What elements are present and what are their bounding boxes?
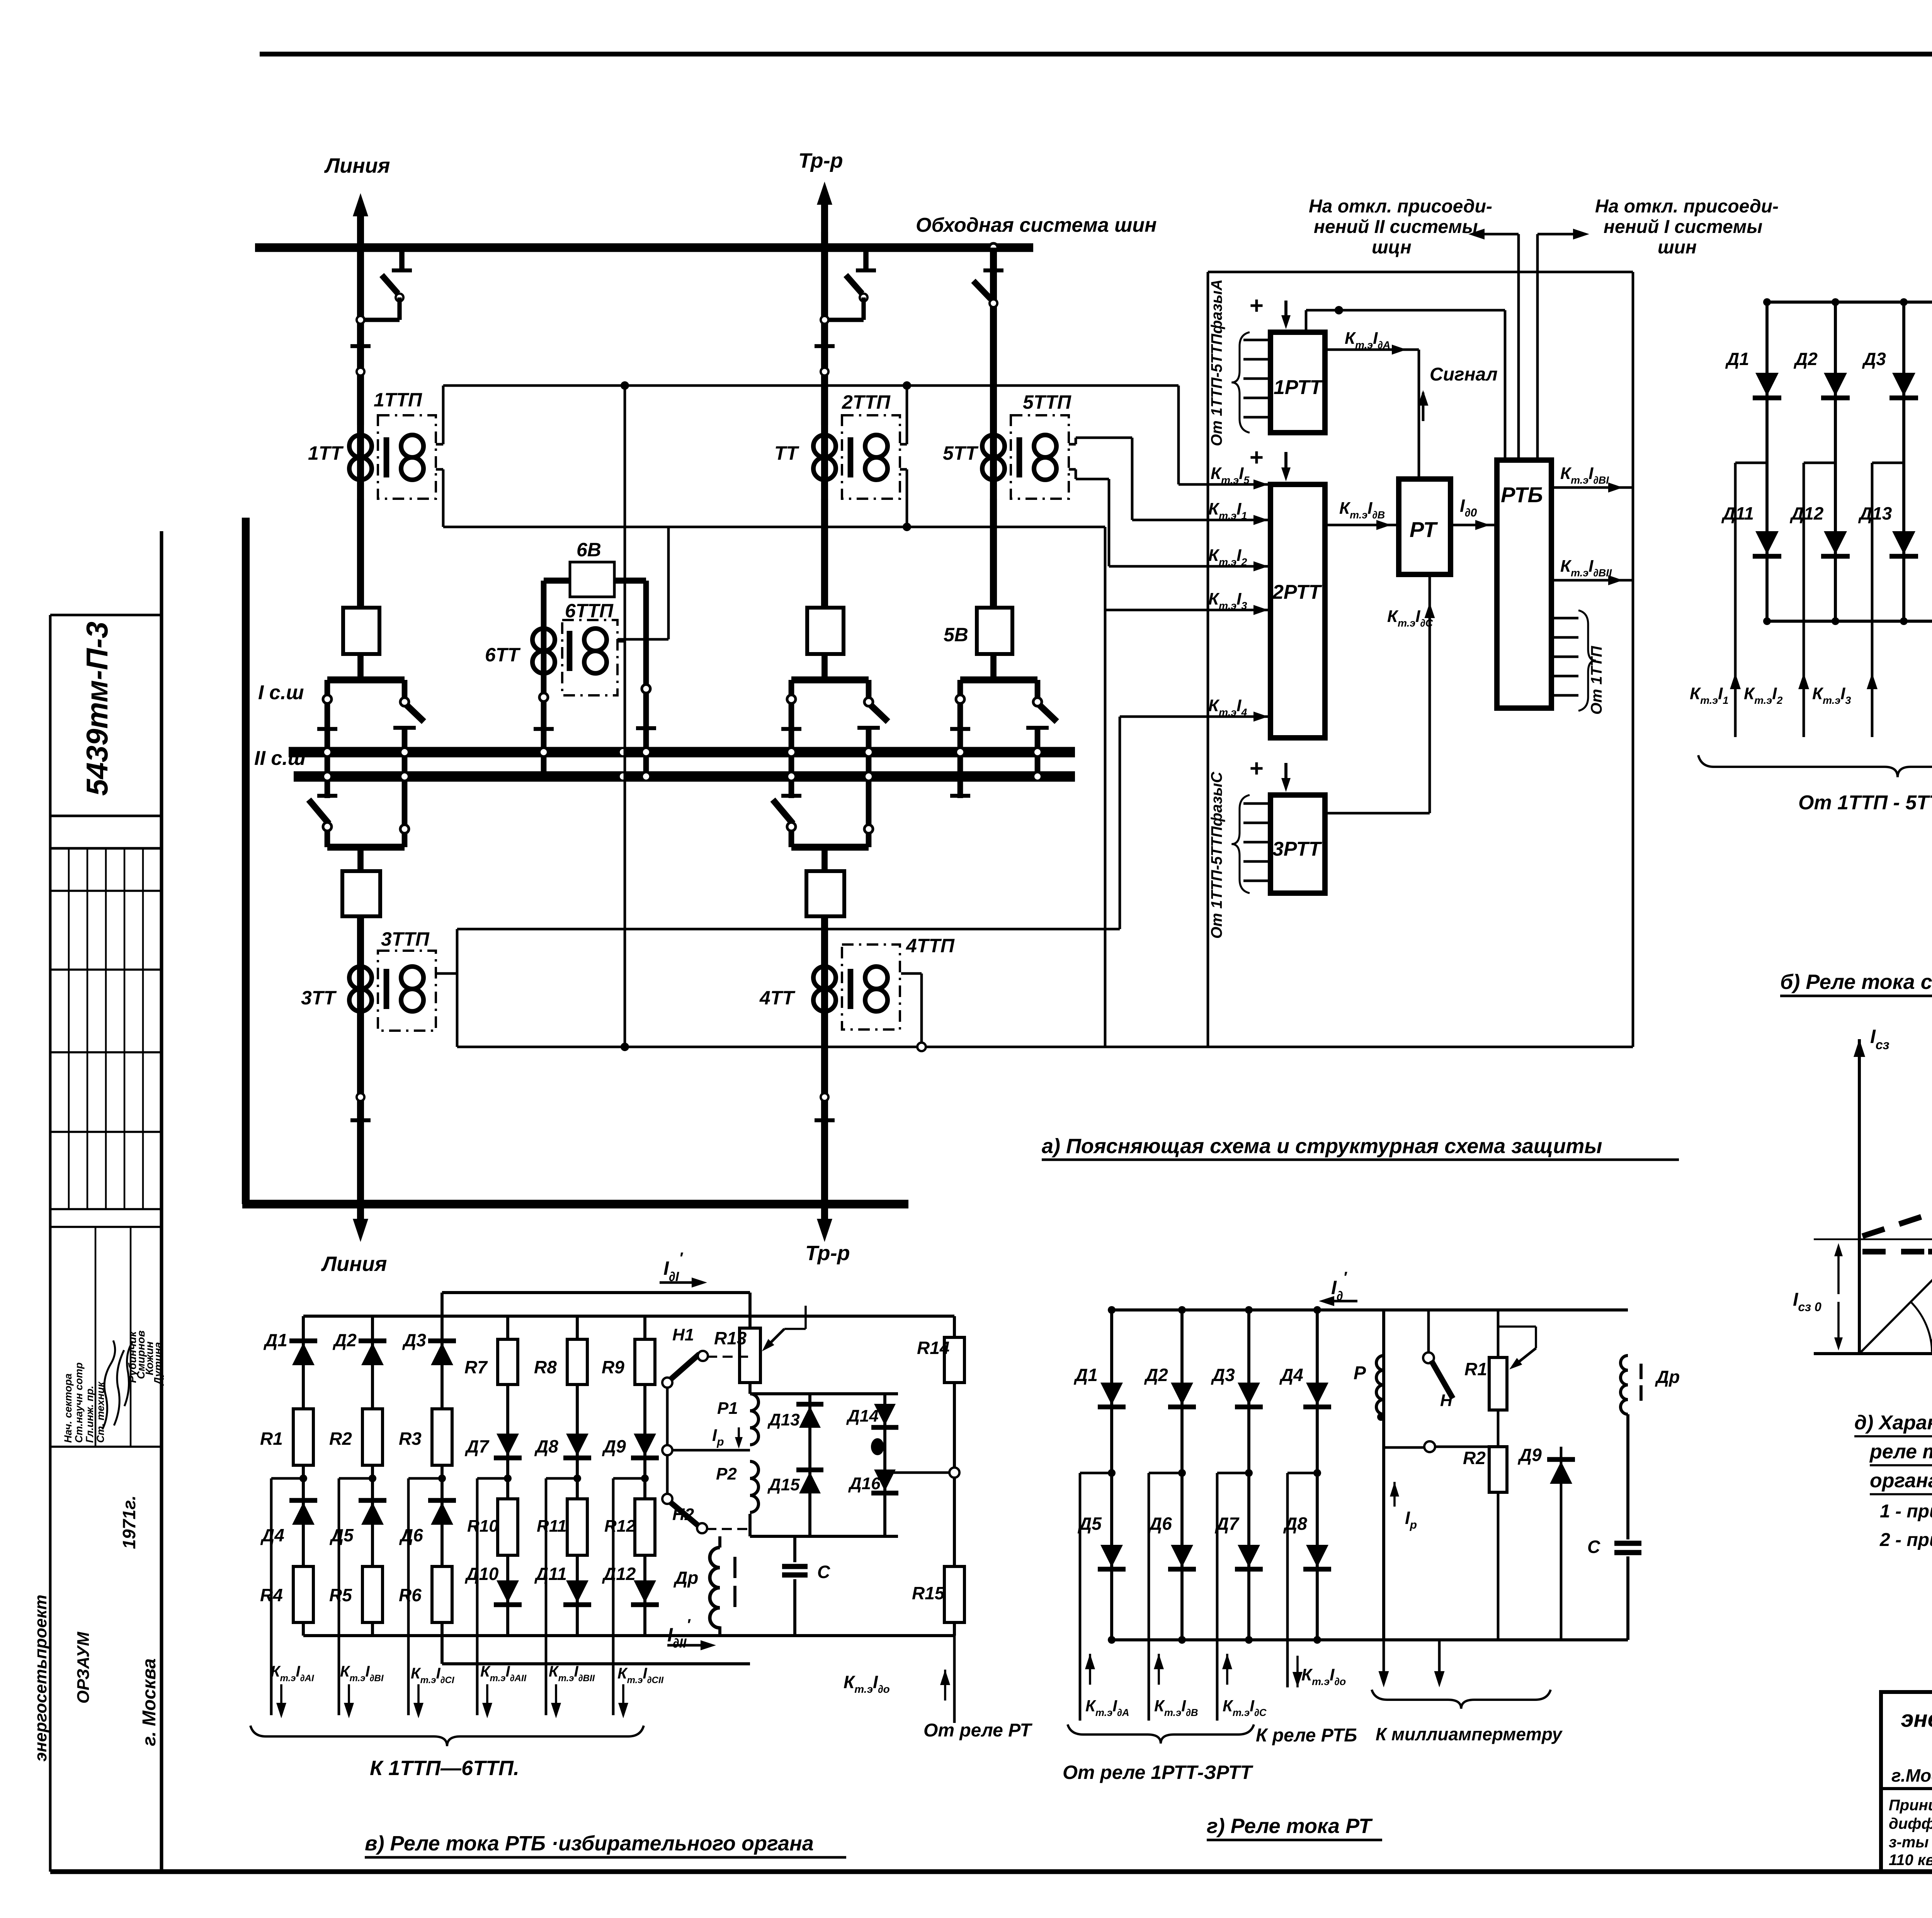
svg-text:Др: Др [673, 1568, 698, 1588]
svg-text:2РТТ: 2РТТ [1272, 581, 1322, 603]
svg-text:Дутина: Дутина [152, 1342, 164, 1386]
current transformer 1ТТ [349, 435, 361, 480]
g: diode column Д4 Д8 [1316, 1310, 1319, 1640]
svg-text:5ТТП: 5ТТП [1023, 391, 1071, 413]
feeder 5 with 5ТТ [989, 243, 998, 252]
svg-text:Р: Р [1354, 1363, 1366, 1383]
vertical to I4 input [1119, 717, 1121, 929]
svg-text:R1: R1 [260, 1429, 283, 1449]
thick zone line bottom [242, 1200, 908, 1209]
thick zone line left [242, 518, 250, 1204]
svg-text:Д13: Д13 [767, 1410, 800, 1429]
b: diode column Д2/Д12 [1834, 302, 1837, 621]
wire 5ТТП secondary lower [1069, 468, 1076, 471]
b: diode column Д3/Д13 [1902, 302, 1905, 621]
svg-text:Д12: Д12 [1789, 503, 1824, 523]
breaker square 5В [977, 608, 1012, 654]
svg-text:Д10: Д10 [464, 1564, 499, 1584]
svg-text:1РТТ: 1РТТ [1274, 376, 1323, 399]
g: output column [1080, 1472, 1112, 1475]
svg-text:Д3: Д3 [1211, 1365, 1235, 1385]
svg-text:От 1ТТП: От 1ТТП [1588, 646, 1605, 715]
svg-text:Д14: Д14 [846, 1407, 879, 1425]
v: column Д3 R3 Д6 R6 [440, 1316, 444, 1636]
v: column R9 Д9 R12 Д12 [643, 1316, 646, 1636]
g: bottom rail [1112, 1638, 1628, 1641]
svg-text:II с.ш: II с.ш [254, 747, 306, 770]
v: relay coil Р1 [748, 1383, 752, 1394]
svg-text:5В: 5В [944, 624, 968, 646]
g: milliammeter arrows [1383, 1640, 1385, 1678]
relay block 3РТТ [1270, 795, 1325, 893]
b: diode column Д1/Д11 [1765, 302, 1769, 621]
breaker square feeder 1 [343, 608, 379, 654]
svg-text:Д2: Д2 [332, 1330, 357, 1350]
bypass busbar (Обходная система шин) [255, 243, 1033, 252]
current transformer 4ТТ [821, 916, 828, 1204]
wire 2ТТП taps [903, 381, 911, 390]
v: output column [477, 1477, 508, 1480]
svg-text:От 1ТТП - 5ТТП: От 1ТТП - 5ТТП [1798, 792, 1932, 814]
svg-text:нений I системы: нений I системы [1604, 217, 1762, 237]
svg-text:К 1ТТП—6ТТП.: К 1ТТП—6ТТП. [370, 1757, 519, 1780]
wire input Кт.эI5 [1179, 483, 1270, 486]
upper disconnectors feeder 5 [990, 654, 997, 680]
brace РТБ right side [1551, 617, 1578, 620]
brace inputs 1РТТ [1243, 339, 1270, 341]
chart d: threshold line [1814, 1238, 1932, 1240]
stamp signatures scribbles [102, 1340, 115, 1429]
svg-text:3ТТП: 3ТТП [381, 928, 430, 950]
svg-text:Линия: Линия [321, 1252, 387, 1276]
svg-text:г. Москва: г. Москва [139, 1658, 160, 1746]
svg-text:шцн: шцн [1372, 237, 1412, 258]
wire 6ТТП secondary right tap [617, 638, 668, 641]
brace inputs 3РТТ [1243, 802, 1270, 805]
svg-text:Д13: Д13 [1858, 503, 1892, 523]
svg-text:5439тм-П-3: 5439тм-П-3 [80, 622, 114, 796]
svg-text:I с.ш: I с.ш [258, 681, 304, 704]
svg-text:От реле РТ: От реле РТ [923, 1720, 1032, 1741]
svg-text:Н2: Н2 [672, 1505, 694, 1524]
current transformer 6ТТ [532, 629, 544, 673]
wire РТ to РТБ [1451, 524, 1497, 527]
busbar I c.ш [289, 747, 1075, 757]
breaker square feeder 2 lower [806, 871, 844, 916]
bus tie breaker 6В [570, 562, 614, 597]
svg-text:РТ: РТ [1410, 517, 1438, 542]
v: output column [408, 1477, 442, 1480]
current transformer 5ТТ [982, 435, 993, 480]
v: switch Н2 [662, 1494, 672, 1504]
bypass disconnector feeder 1 [399, 248, 405, 270]
svg-text:Нач. сектора: Нач. сектора [62, 1373, 74, 1443]
busbar II c.ш [294, 771, 1075, 781]
v: column R7 Д7 R10 Д10 [506, 1316, 509, 1636]
v: column Д1 R1 Д4 R4 [302, 1316, 305, 1636]
CT protection box 6ТТП [562, 620, 617, 695]
svg-text:Д3: Д3 [1862, 349, 1886, 369]
svg-text:1971г.: 1971г. [119, 1495, 139, 1549]
relay block 2РТТ [1270, 484, 1325, 738]
svg-text:Ст.научн сотр: Ст.научн сотр [73, 1362, 85, 1443]
relay block РТБ [1497, 460, 1551, 708]
CT protection box 2ТТП [842, 415, 900, 499]
svg-text:энергосетьпроект: энергосетьпроект [1901, 1706, 1932, 1732]
svg-text:1 - при наличии торможения: 1 - при наличии торможения [1880, 1501, 1932, 1522]
wire 1ТТП lower secondary [436, 468, 443, 471]
svg-text:R2: R2 [1463, 1448, 1486, 1468]
g: output column [1217, 1472, 1249, 1475]
svg-text:Д16: Д16 [848, 1474, 881, 1493]
svg-text:Д12: Д12 [602, 1564, 636, 1584]
svg-text:Р1: Р1 [717, 1399, 738, 1418]
svg-text:4ТТП: 4ТТП [906, 935, 955, 956]
svg-text:+: + [1250, 755, 1264, 782]
svg-text:На откл. присоеди-: На откл. присоеди- [1309, 196, 1492, 217]
svg-text:R9: R9 [602, 1357, 624, 1377]
svg-text:Н: Н [1440, 1391, 1453, 1410]
wire 2РТТ to РТ [1325, 524, 1399, 527]
feeder 2 lower arrow (Тр-р) [821, 1204, 828, 1228]
svg-text:От 1ТТП-5ТТПфазыС: От 1ТТП-5ТТПфазыС [1208, 771, 1225, 939]
g: capacitor C [1614, 1541, 1641, 1546]
svg-text:Д11: Д11 [534, 1564, 567, 1584]
v: column R8 Д8 R11 Д11 [576, 1316, 579, 1636]
g: diode column Д3 Д7 [1247, 1310, 1250, 1640]
v: potentiometer R13 [748, 1293, 752, 1328]
relay block РТ [1399, 479, 1451, 574]
svg-text:Сигнал: Сигнал [1430, 364, 1498, 385]
b: input column Кт.эI2 [1804, 462, 1835, 464]
svg-text:6ТТ: 6ТТ [485, 644, 521, 666]
svg-text:R7: R7 [464, 1357, 488, 1377]
svg-text:Тр-р: Тр-р [805, 1242, 850, 1265]
current transformer 3ТТ [357, 916, 364, 1204]
svg-text:Д7: Д7 [464, 1436, 490, 1456]
b: input column Кт.эI1 [1735, 462, 1767, 464]
v: choke Др parallel C [718, 1536, 721, 1548]
svg-text:Д15: Д15 [767, 1475, 800, 1494]
svg-text:Д4: Д4 [1279, 1365, 1303, 1385]
svg-text:6ТТП: 6ТТП [565, 600, 614, 622]
svg-text:R11: R11 [537, 1517, 566, 1536]
outer loop wires [1207, 272, 1209, 1046]
v: resistor R14 [953, 1316, 956, 1337]
g: diode column Д1 Д5 [1110, 1310, 1113, 1640]
svg-text:Д3: Д3 [402, 1330, 426, 1350]
svg-text:Линия: Линия [324, 154, 390, 177]
svg-text:R8: R8 [534, 1357, 557, 1377]
trip wires up from РТБ [1517, 234, 1520, 460]
breaker square feeder 2 [807, 608, 844, 654]
signal arrow [1418, 390, 1429, 406]
chart d: axes [1858, 1039, 1861, 1354]
wire 5ТТП secondary upper [1069, 443, 1076, 446]
svg-text:К миллиамперметру: К миллиамперметру [1376, 1724, 1563, 1744]
v: output column [546, 1477, 577, 1480]
title block outer [1881, 1692, 1932, 1872]
wire A from 3ТТП [436, 972, 457, 975]
svg-text:Д5: Д5 [329, 1525, 354, 1545]
v: column Д2 R2 Д5 R5 [371, 1316, 374, 1636]
svg-text:+: + [1250, 444, 1264, 471]
svg-text:Гл.инж. пр.: Гл.инж. пр. [84, 1386, 95, 1443]
g: output column [1149, 1472, 1182, 1475]
wire РТБ output II [1551, 579, 1633, 582]
stamp column left line [49, 615, 52, 1872]
v: resistor R15 [944, 1566, 964, 1622]
svg-text:R5: R5 [329, 1585, 352, 1605]
CT protection box 3ТТП [378, 951, 436, 1031]
v: brace К 1ТТП-6ТТП [250, 1726, 644, 1746]
svg-text:Д6: Д6 [1148, 1514, 1172, 1534]
svg-text:ОРЗАУМ: ОРЗАУМ [74, 1631, 93, 1704]
wire РТБ output I [1551, 486, 1633, 489]
svg-text:3ТТ: 3ТТ [301, 987, 337, 1009]
wire 3РТТ to РТ bottom [1325, 812, 1430, 815]
svg-text:4ТТ: 4ТТ [759, 987, 796, 1009]
svg-text:3РТТ: 3РТТ [1272, 838, 1322, 860]
svg-text:Н1: Н1 [672, 1325, 694, 1344]
svg-text:энергосетьпроект: энергосетьпроект [31, 1595, 50, 1762]
v: diode bridge Д13-Д16 [750, 1392, 898, 1395]
g: pot R1 [1497, 1310, 1500, 1357]
long vertical to lower CT wires [1104, 610, 1107, 1047]
wire to 2РТТ input I3 [1104, 527, 1107, 610]
bypass disconnector feeder 2 [863, 248, 869, 270]
svg-text:110 кв и выше: 110 кв и выше [1889, 1852, 1932, 1869]
v: rail 2 [303, 1315, 954, 1318]
svg-text:R1: R1 [1464, 1359, 1487, 1379]
disconnector feeder 5 top [983, 268, 1003, 272]
svg-text:R15: R15 [912, 1583, 945, 1603]
svg-text:Д1: Д1 [1073, 1365, 1098, 1385]
current transformer 2ТТ [813, 435, 825, 480]
svg-text:R2: R2 [329, 1429, 352, 1449]
svg-text:Д8: Д8 [534, 1436, 558, 1456]
g: top rail [1112, 1308, 1628, 1312]
v: output column [339, 1477, 372, 1480]
svg-text:R13: R13 [714, 1328, 747, 1348]
svg-text:К реле РТБ: К реле РТБ [1256, 1725, 1357, 1746]
svg-text:Обходная система шин: Обходная система шин [916, 214, 1157, 236]
CT protection box 1ТТП [378, 415, 436, 499]
wire B lower collector [457, 1046, 1633, 1048]
svg-text:Др: Др [1655, 1367, 1680, 1387]
svg-text:От реле 1РТТ-ЗРТТ: От реле 1РТТ-ЗРТТ [1063, 1762, 1253, 1783]
g: relay coil Р [1382, 1310, 1385, 1640]
svg-text:з-ты шин напряжением: з-ты шин напряжением [1889, 1834, 1932, 1851]
chart d: Iсз0 arrows [1837, 1251, 1840, 1294]
svg-text:Д9: Д9 [602, 1436, 626, 1456]
wire input Кт.эI4 label [1253, 712, 1268, 722]
svg-text:г) Реле тока РТ: г) Реле тока РТ [1207, 1814, 1373, 1838]
svg-text:шин: шин [1658, 237, 1697, 258]
wire input Кт.эI1 [1132, 519, 1270, 522]
svg-text:Р2: Р2 [716, 1464, 737, 1483]
svg-text:Принцип. схемы и расчеты: Принцип. схемы и расчеты [1889, 1797, 1932, 1814]
wire input Кт.эI3 [1105, 609, 1270, 612]
svg-text:Д11: Д11 [1721, 503, 1754, 523]
v: relay coil Р2 [750, 1461, 759, 1512]
wire input Кт.эI2 [1109, 565, 1270, 568]
svg-text:Д2: Д2 [1144, 1365, 1168, 1385]
CT protection box 5ТТП [1011, 415, 1069, 499]
svg-text:дифференциально-тормозной: дифференциально-тормозной [1889, 1815, 1932, 1832]
g: diode column Д2 Д6 [1180, 1310, 1184, 1640]
svg-text:R12: R12 [604, 1517, 636, 1536]
g: choke Др [1626, 1414, 1629, 1539]
svg-text:д) Характеристики срабатыван: д) Характеристики срабатывания [1854, 1412, 1932, 1434]
b: top rail [1767, 301, 1929, 304]
b: brace От 1ТТП-5ТТП [1698, 755, 1932, 777]
stamp grid lines [50, 815, 162, 817]
svg-text:R14: R14 [917, 1338, 949, 1358]
svg-text:РТБ: РТБ [1501, 482, 1543, 507]
b: bottom rail [1767, 620, 1929, 623]
svg-text:Д1: Д1 [1725, 349, 1749, 369]
chart d: 45 deg line [1859, 1062, 1932, 1354]
drawing frame bottom border [50, 1869, 1932, 1874]
svg-text:реле тока 1РТТ-ЗРТТ пусково: реле тока 1РТТ-ЗРТТ пускового [1869, 1441, 1932, 1463]
svg-text:органа: органа [1870, 1470, 1932, 1492]
v: switch Н1 [662, 1378, 672, 1388]
upper/lower disconnectors feeder 1 [357, 654, 364, 680]
v: rail I∂I [442, 1291, 750, 1294]
v: output column [613, 1477, 645, 1480]
svg-text:R3: R3 [399, 1429, 422, 1449]
svg-text:На откл. присоеди-: На откл. присоеди- [1595, 196, 1779, 217]
svg-text:От 1ТТП-5ТТПфазыА: От 1ТТП-5ТТПфазыА [1208, 279, 1225, 446]
svg-text:Д1: Д1 [263, 1330, 287, 1350]
g: brace От реле 1РТТ-3РТТ [1068, 1724, 1254, 1743]
g: wire row [1384, 1446, 1424, 1449]
v: output Кт.эI∂о [953, 1636, 956, 1723]
svg-text:Д6: Д6 [399, 1525, 423, 1545]
v: middle contact [666, 1388, 669, 1446]
svg-text:нений II системы: нений II системы [1314, 217, 1478, 237]
svg-text:б) Реле тока с торможением: б) Реле тока с торможением 1РТТ [1780, 970, 1932, 994]
relay block 1РТТ [1270, 332, 1325, 433]
g: resistor R2 [1497, 1410, 1500, 1447]
v: capacitor C [793, 1536, 796, 1562]
g: switch Н [1427, 1310, 1430, 1352]
chart d: line 2 no braking [1928, 1249, 1932, 1255]
svg-text:2 - при отсутствии торможени: 2 - при отсутствии торможения [1879, 1530, 1932, 1550]
svg-text:Д2: Д2 [1793, 349, 1818, 369]
svg-text:5ТТ: 5ТТ [943, 442, 979, 464]
b: input column Кт.эI3 [1872, 462, 1904, 464]
svg-text:R10: R10 [467, 1517, 498, 1536]
svg-text:2ТТП: 2ТТП [842, 391, 891, 413]
wire 1РТТ output [1325, 348, 1419, 351]
wire 6ТТП tap vertical [621, 381, 629, 390]
stamp column outer right line [160, 531, 163, 1872]
svg-text:а) Поясняющая схема и струк: а) Поясняющая схема и структурная схема … [1042, 1135, 1602, 1158]
bus tie loop wires [544, 578, 570, 584]
upper/lower disconnectors feeder 2 [821, 654, 828, 680]
svg-text:г.Москва: г.Москва [1891, 1765, 1932, 1785]
wire 1РТТ to РТБ top [1305, 310, 1308, 332]
svg-text:С: С [817, 1562, 830, 1582]
stamp top line [50, 614, 162, 617]
g: diode Д9 [1560, 1447, 1563, 1640]
svg-text:Тр-р: Тр-р [798, 149, 843, 172]
svg-text:1ТТ: 1ТТ [308, 442, 344, 464]
svg-text:в) Реле тока РТБ ·избират: в) Реле тока РТБ ·избирательного органа [365, 1832, 814, 1855]
v: ink blot [871, 1438, 884, 1455]
svg-text:ТТ: ТТ [774, 442, 800, 464]
svg-text:6В: 6В [577, 539, 601, 561]
breaker square feeder 1 lower [342, 871, 380, 916]
svg-text:+: + [1250, 292, 1264, 319]
svg-text:1ТТП: 1ТТП [374, 389, 422, 411]
svg-text:R6: R6 [399, 1585, 422, 1605]
wire 1ТТП upper secondary [436, 443, 443, 446]
CT protection box 4ТТП [842, 945, 900, 1030]
v: output column [271, 1477, 303, 1480]
g: output column [1287, 1472, 1317, 1475]
v: lower rails [303, 1634, 954, 1637]
stamp signature block [50, 1226, 162, 1228]
feeder 1 lower arrow (Линия) [357, 1204, 364, 1228]
wire 4ТТП secondary [901, 972, 922, 975]
drawing frame top border [260, 52, 1932, 56]
svg-text:Д9: Д9 [1517, 1445, 1542, 1465]
svg-text:С: С [1587, 1537, 1600, 1557]
